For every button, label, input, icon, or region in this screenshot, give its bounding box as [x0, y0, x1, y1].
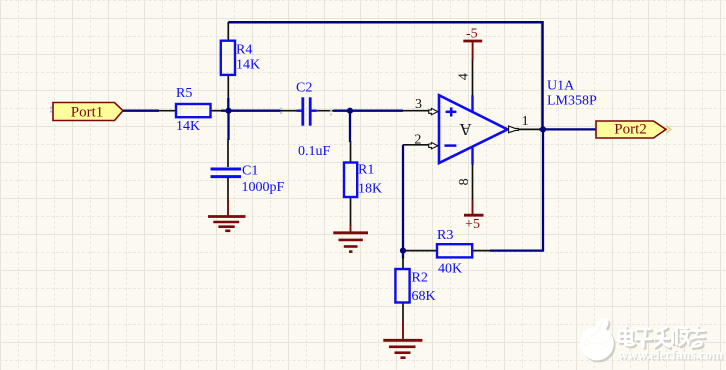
- node D junction (output): [540, 126, 546, 132]
- wire output to Port2: [539, 128, 596, 130]
- svg-text:4: 4: [457, 73, 472, 80]
- pin 1 output of op-amp: [509, 126, 540, 133]
- svg-text:3: 3: [415, 97, 422, 112]
- wire R4 bottom to node A: [227, 98, 229, 111]
- svg-text:1: 1: [522, 114, 529, 129]
- ground below R1: [333, 225, 368, 252]
- svg-text:C2: C2: [296, 81, 312, 96]
- wire node A to C2: [228, 110, 282, 112]
- marker near Port1: [50, 107, 52, 113]
- wire C2 to node B and pin 3: [333, 110, 403, 112]
- wire node A to C1: [227, 111, 229, 140]
- power -5 symbol: [463, 41, 482, 60]
- watermark text www.elecfans.com: [618, 347, 725, 363]
- resistor R5: [158, 104, 223, 117]
- svg-text:C1: C1: [242, 164, 258, 179]
- svg-text:U1A: U1A: [547, 79, 575, 94]
- watermark text 电子发烧友 (approximated strokes): [619, 326, 706, 349]
- resistor R3: [406, 244, 491, 257]
- node A junction: [225, 108, 231, 114]
- wire pin 2 corner down to node C: [402, 145, 404, 251]
- node B junction: [347, 108, 353, 114]
- svg-text:R3: R3: [437, 228, 453, 243]
- svg-text:R5: R5: [176, 86, 192, 101]
- node C junction: [400, 248, 406, 254]
- svg-text:18K: 18K: [358, 182, 382, 197]
- pin 8 of op-amp: [472, 164, 474, 201]
- pin 4 of op-amp: [472, 59, 474, 96]
- svg-text:2: 2: [414, 133, 421, 148]
- svg-text:-5: -5: [466, 26, 478, 41]
- watermark logo elecfans: [580, 318, 616, 362]
- svg-text:Port1: Port1: [71, 105, 104, 121]
- svg-text:68K: 68K: [412, 289, 436, 304]
- svg-text:+5: +5: [465, 217, 480, 232]
- ground below C1: [208, 201, 246, 231]
- svg-text:A: A: [459, 120, 472, 139]
- pin 3 of op-amp: [403, 108, 438, 114]
- port Port2: [596, 121, 671, 138]
- svg-text:14K: 14K: [236, 58, 260, 73]
- marker on wire at C2 left pin end: [280, 108, 282, 115]
- svg-text:R4: R4: [236, 43, 252, 58]
- capacitor C2: [281, 97, 333, 125]
- resistor R4: [221, 22, 235, 99]
- power +5 symbol: [464, 200, 484, 216]
- wire feedback top: R4 top across to output column: [228, 22, 542, 129]
- svg-text:8: 8: [457, 178, 472, 185]
- resistor R2: [395, 251, 409, 323]
- resistor R1: [344, 141, 357, 226]
- marker on wire near node B: [330, 110, 332, 116]
- svg-text:www.elecfans.com: www.elecfans.com: [618, 347, 724, 362]
- svg-text:LM358P: LM358P: [547, 94, 597, 109]
- op-amp U1A triangle: [439, 95, 508, 164]
- svg-text:Port2: Port2: [614, 122, 647, 138]
- svg-text:40K: 40K: [438, 262, 462, 277]
- port Port1: [53, 103, 123, 121]
- svg-text:R2: R2: [412, 271, 428, 286]
- wire output node down to R3 row: [490, 129, 543, 250]
- capacitor C1: [211, 139, 242, 202]
- svg-text:0.1uF: 0.1uF: [298, 144, 331, 159]
- wire R5 to node A: [221, 110, 230, 112]
- ground below R2: [383, 322, 422, 358]
- wire Port1 to R5: [123, 110, 159, 112]
- svg-text:1000pF: 1000pF: [242, 180, 285, 195]
- wire node B to R1: [349, 111, 351, 142]
- svg-text:14K: 14K: [176, 119, 200, 134]
- pin 2 of op-amp: [403, 143, 438, 149]
- svg-text:R1: R1: [358, 163, 374, 178]
